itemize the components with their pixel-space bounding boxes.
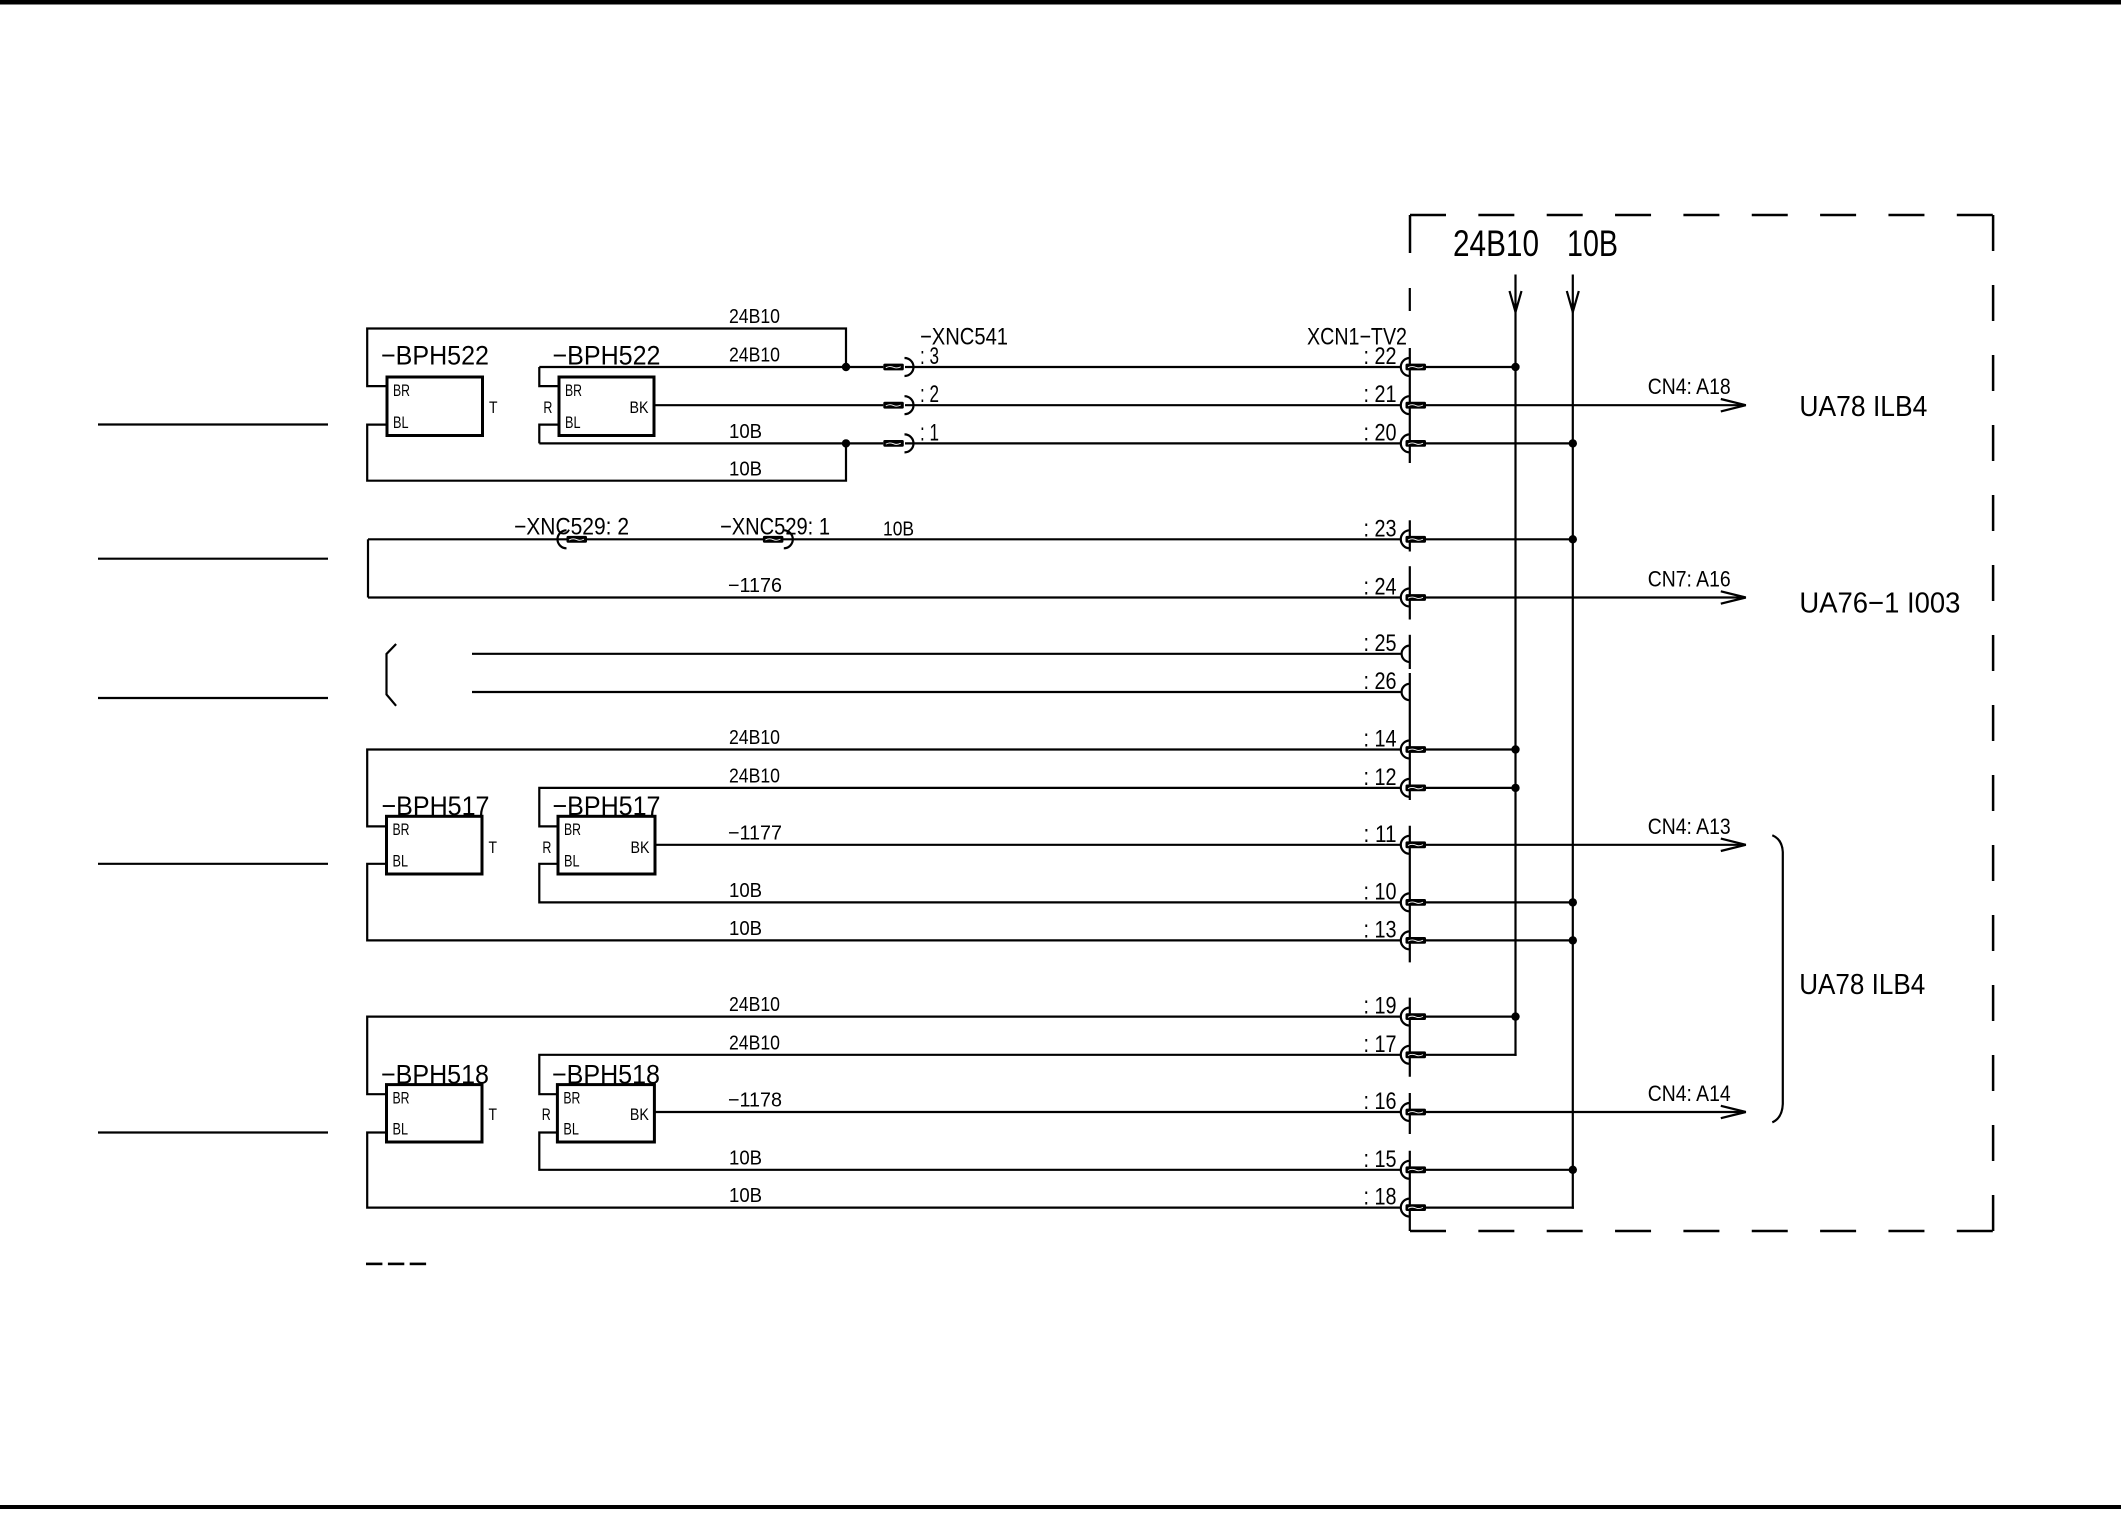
dashed harness boundary box left edge stub (1409, 215, 1412, 253)
svg-text:: 24: : 24 (1364, 574, 1397, 601)
svg-text:BK: BK (630, 1105, 650, 1124)
connector pin XCN1-TV2:25 socket arc (1402, 646, 1410, 662)
wire BPH517 box2 BK row :11 (-1177) (655, 844, 1401, 846)
continuation dashes bottom left (366, 1263, 426, 1266)
connector pin XCN1-TV2:24 crimp bar (1406, 594, 1427, 601)
wire BPH517 box1 BR loop to row :14 (24B10) (367, 750, 1401, 827)
svg-text:24B10: 24B10 (729, 765, 780, 787)
svg-text:: 21: : 21 (1364, 381, 1397, 408)
junction dot :19/24B10 (1511, 1012, 1519, 1020)
connector pin XCN1-TV2:11 socket arc (1401, 836, 1410, 854)
bus wire 10B vertical (1572, 275, 1574, 1209)
wire XCN1:13 to bus 10B (1426, 939, 1573, 941)
connector pin XCN1-TV2:17 socket arc (1401, 1046, 1410, 1064)
transducer BPH517 box2 (558, 816, 655, 874)
connector XNC541 pin :3 socket arc (905, 358, 914, 376)
svg-text:: 20: : 20 (1364, 419, 1397, 446)
connector pin XCN1-TV2:12 socket arc (1401, 779, 1410, 797)
wire XCN1:24 to CN7:A16 (1426, 596, 1738, 598)
wire BPH518 box2 BL step to row :15 (10B) (539, 1133, 1401, 1170)
svg-text:T: T (489, 398, 498, 417)
svg-text:: 16: : 16 (1364, 1088, 1397, 1115)
wire row :25 spare (472, 653, 1401, 655)
wire BPH517 box2 BL step to row :10 (10B) (539, 864, 1401, 903)
connector pin XCN1-TV2:15 crimp bar (1406, 1166, 1427, 1173)
svg-text:10B: 10B (729, 1147, 762, 1169)
svg-text:CN4: A13: CN4: A13 (1648, 814, 1731, 839)
connector XNC529:1 crimp bar (763, 536, 784, 543)
connector pin XCN1-TV2:10 crimp bar (1406, 899, 1427, 906)
junction dot :13/10B (1569, 936, 1577, 944)
wire XCN1:15 to bus 10B (1426, 1169, 1573, 1171)
wire BPH522 box2 BR step to row :3 (539, 367, 559, 386)
wire BPH522 box2 BL step to row :1 (539, 425, 559, 444)
bus wire 24B10 vertical (1514, 275, 1516, 1056)
svg-text:24B10: 24B10 (729, 727, 780, 749)
wire XCN1:23 to bus 10B (1426, 538, 1573, 540)
wire row :24 net -1176 (368, 596, 1401, 598)
svg-text:BR: BR (565, 381, 582, 400)
svg-text:BL: BL (563, 1120, 579, 1139)
junction dot :12/24B10 (1511, 784, 1519, 792)
svg-text:BL: BL (393, 1120, 409, 1139)
wire row :3 net 24B10 (539, 366, 883, 368)
junction dot :23/10B (1569, 535, 1577, 543)
svg-text:24B10: 24B10 (729, 345, 780, 367)
connector pin XCN1-TV2:22 socket arc (1401, 358, 1410, 376)
connector pin XCN1-TV2:11 crimp bar (1406, 841, 1427, 848)
arrow to CN4:A13 (1721, 839, 1746, 851)
svg-text:−1178: −1178 (728, 1090, 782, 1112)
svg-text:−1176: −1176 (728, 575, 782, 597)
wire left bracket rows :23/:24 (367, 539, 369, 597)
connector pin XCN1-TV2:14 crimp bar (1406, 746, 1427, 753)
connector pin XCN1-TV2:24 socket arc (1401, 589, 1410, 607)
wire BPH522 box1 BL loop (10B) (367, 425, 846, 481)
dashed harness boundary box bottom edge (1410, 1230, 1993, 1233)
svg-text:R: R (542, 1105, 551, 1124)
connector pin XCN1-TV2:20 crimp bar (1406, 440, 1427, 447)
transducer BPH518 box1 (387, 1085, 483, 1142)
connector pin XCN1-TV2:16 crimp bar (1406, 1109, 1427, 1116)
wire BPH518 box2 BK row :16 (-1178) (654, 1111, 1400, 1113)
dashed harness boundary box right edge (1992, 215, 1995, 1231)
connector pin XCN1-TV2:14 socket arc (1401, 741, 1410, 759)
connector pin XCN1-TV2:16 socket arc (1401, 1103, 1410, 1121)
svg-text:: 26: : 26 (1364, 668, 1397, 695)
connector pin XCN1-TV2:23 crimp bar (1406, 536, 1427, 543)
junction dot :22/24B10 (1511, 363, 1519, 371)
wire row :1 to XCN1:20 (905, 442, 1401, 444)
wire row :1 net 10B (539, 442, 883, 444)
off-page stub wire 2 (98, 558, 328, 560)
bus 24B10 feed arrow (1510, 291, 1522, 312)
transducer BPH522 box1 (387, 377, 483, 436)
bus 10B feed arrow (1567, 291, 1579, 312)
svg-text:BL: BL (393, 413, 409, 432)
connector pin XCN1-TV2:26 socket arc (1402, 684, 1410, 700)
svg-text:: 11: : 11 (1364, 821, 1397, 848)
wire BPH518 box1 BR loop to row :19 (24B10) (367, 1017, 1401, 1095)
connector XNC529:1 pin arc (784, 530, 793, 548)
svg-text:R: R (542, 838, 551, 857)
wire row :26 spare (472, 691, 1401, 693)
svg-text:10B: 10B (1567, 223, 1618, 264)
connector XNC541 pin :2 socket arc (905, 396, 914, 414)
dashed harness boundary box top edge (1410, 214, 1993, 217)
junction dot :14/24B10 (1511, 745, 1519, 753)
wire XCN1:11 to CN4:A13 (1426, 844, 1738, 846)
spare cable bracket (387, 644, 397, 706)
wire BPH517 box2 BR step to row :12 (24B10) (539, 788, 1401, 827)
svg-text:BK: BK (631, 838, 651, 857)
arrow to CN4:A18 (1721, 399, 1746, 411)
svg-text:: 15: : 15 (1364, 1146, 1397, 1173)
connector pin XCN1-TV2:20 socket arc (1401, 434, 1410, 452)
connector XNC541 pin :2 crimp bar (883, 402, 904, 409)
connector pin XCN1-TV2:18 socket arc (1401, 1199, 1410, 1217)
svg-text:24B10: 24B10 (729, 1032, 780, 1054)
off-page stub wire 4 (98, 863, 328, 865)
svg-text:BL: BL (564, 852, 580, 871)
connector pin XCN1-TV2:13 socket arc (1401, 931, 1410, 949)
svg-text:10B: 10B (729, 1185, 762, 1207)
connector pin XCN1-TV2:10 socket arc (1401, 893, 1410, 911)
svg-text:24B10: 24B10 (729, 306, 780, 328)
svg-text:BL: BL (393, 852, 409, 871)
wire row :2 to XCN1:21 (905, 404, 1401, 406)
svg-text:10B: 10B (729, 918, 762, 940)
junction dot :20/10B (1569, 439, 1577, 447)
svg-text:BL: BL (565, 413, 581, 432)
svg-text:T: T (489, 1105, 498, 1124)
wire XCN1:12 to bus 24B10 (1426, 787, 1516, 789)
connector pin XCN1-TV2:19 crimp bar (1406, 1013, 1427, 1020)
svg-text:: 12: : 12 (1364, 764, 1397, 791)
svg-text:BK: BK (630, 398, 650, 417)
svg-text:10B: 10B (883, 519, 914, 541)
connector pin XCN1-TV2:18 crimp bar (1406, 1204, 1427, 1211)
svg-text:: 23: : 23 (1364, 515, 1397, 542)
connector pin XCN1-TV2:21 crimp bar (1406, 402, 1427, 409)
off-page stub wire 3 (98, 697, 328, 699)
off-page stub wire 5 (98, 1131, 328, 1133)
connector pin XCN1-TV2:19 socket arc (1401, 1008, 1410, 1026)
group brace UA78 ILB4 (1772, 835, 1783, 1122)
connector XNC529:2 crimp bar (567, 536, 588, 543)
svg-text:BR: BR (393, 381, 410, 400)
arrow to CN4:A14 (1721, 1106, 1746, 1118)
svg-text:10B: 10B (729, 459, 762, 481)
connector XNC541 pin :1 crimp bar (883, 440, 904, 447)
svg-text:24B10: 24B10 (729, 994, 780, 1016)
wire BPH518 box1 BL loop to row :18 (10B) (367, 1133, 1401, 1208)
wire XCN1:20 to bus 10B (1426, 442, 1573, 444)
svg-text:: 14: : 14 (1364, 726, 1397, 753)
connector pin XCN1-TV2:21 socket arc (1401, 396, 1410, 414)
svg-text:: 19: : 19 (1364, 993, 1397, 1020)
wire row :23 net 10B (368, 538, 1401, 540)
svg-text:UA78 ILB4: UA78 ILB4 (1799, 391, 1927, 423)
svg-text:−1177: −1177 (728, 822, 782, 844)
wire XCN1:10 to bus 10B (1426, 901, 1573, 903)
transducer BPH522 box2 (559, 377, 654, 436)
junction dot row :1 at x846 (842, 439, 850, 447)
page top border bar (0, 0, 2121, 5)
connector XNC541 pin :3 crimp bar (883, 364, 904, 371)
wire XCN1:22 to bus 24B10 (1426, 366, 1516, 368)
svg-text:: 17: : 17 (1364, 1031, 1397, 1058)
junction dot :15/10B (1569, 1166, 1577, 1174)
wire XCN1:17 to bus 24B10 corner (1426, 1054, 1517, 1056)
svg-text:R: R (543, 398, 552, 417)
svg-text:CN4: A14: CN4: A14 (1648, 1081, 1731, 1106)
off-page stub wire 1 (98, 423, 328, 425)
svg-text:T: T (489, 838, 498, 857)
svg-text:: 10: : 10 (1364, 878, 1397, 905)
svg-text:UA76−1 I003: UA76−1 I003 (1799, 588, 1960, 620)
svg-text:CN7: A16: CN7: A16 (1648, 567, 1731, 592)
wire row :3 to XCN1:22 (905, 366, 1401, 368)
wire XCN1:21 to CN4:A18 (1426, 404, 1738, 406)
arrow to CN7:A16 (1721, 591, 1746, 603)
svg-text:10B: 10B (729, 421, 762, 443)
connector pin XCN1-TV2:17 crimp bar (1406, 1051, 1427, 1058)
transducer BPH517 box1 (387, 816, 483, 874)
connector pin XCN1-TV2:12 crimp bar (1406, 785, 1427, 792)
wire BPH517 box1 BL loop to row :13 (10B) (367, 864, 1401, 941)
connector pin XCN1-TV2:22 crimp bar (1406, 364, 1427, 371)
connector XNC541 pin :1 socket arc (905, 434, 914, 452)
svg-text:UA78 ILB4: UA78 ILB4 (1799, 969, 1925, 1001)
wire XCN1:19 to bus 24B10 (1426, 1015, 1516, 1017)
svg-text:10B: 10B (729, 880, 762, 902)
svg-text:BR: BR (393, 1088, 410, 1107)
wire BPH518 box2 BR step to row :17 (24B10) (539, 1055, 1401, 1094)
page bottom border line (0, 1505, 2121, 1509)
svg-text:BR: BR (563, 1088, 580, 1107)
connector XNC529:2 socket arc (558, 530, 567, 548)
svg-text:CN4: A18: CN4: A18 (1648, 374, 1731, 399)
svg-text:BR: BR (393, 820, 410, 839)
svg-text:24B10: 24B10 (1453, 223, 1539, 264)
svg-text:: 18: : 18 (1364, 1184, 1397, 1211)
junction dot :10/10B (1569, 898, 1577, 906)
connector pin XCN1-TV2:13 crimp bar (1406, 937, 1427, 944)
wire XCN1:18 to bus 10B corner (1426, 1206, 1574, 1208)
wire XCN1:14 to bus 24B10 (1426, 748, 1516, 750)
junction dot row :3 at x846 (842, 363, 850, 371)
transducer BPH518 box2 (557, 1085, 654, 1142)
svg-text:: 25: : 25 (1364, 630, 1397, 657)
wire BPH522 box1 BR loop (24B10) (367, 329, 846, 387)
connector XCN1-TV2 body line segments (1409, 288, 1411, 1231)
svg-text:BR: BR (564, 820, 581, 839)
connector pin XCN1-TV2:23 socket arc (1401, 530, 1410, 548)
svg-text:: 13: : 13 (1364, 916, 1397, 943)
wire BPH522 box2 BK row :2 (654, 404, 883, 406)
connector pin XCN1-TV2:15 socket arc (1401, 1161, 1410, 1179)
svg-text:: 22: : 22 (1364, 343, 1397, 370)
svg-text:−BPH522: −BPH522 (381, 341, 489, 371)
wire XCN1:16 to CN4:A14 (1426, 1111, 1738, 1113)
